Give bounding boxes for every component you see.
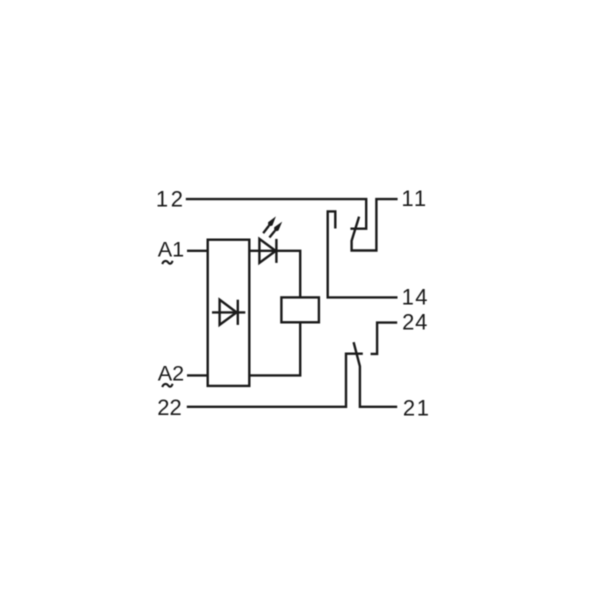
svg-text:21: 21 xyxy=(403,395,431,420)
svg-text:A1: A1 xyxy=(158,237,184,262)
svg-text:22: 22 xyxy=(157,395,181,420)
svg-text:A2: A2 xyxy=(158,361,184,386)
svg-text:24: 24 xyxy=(402,310,428,335)
svg-text:12: 12 xyxy=(156,186,186,211)
svg-text:14: 14 xyxy=(402,285,429,310)
svg-text:11: 11 xyxy=(401,186,428,211)
